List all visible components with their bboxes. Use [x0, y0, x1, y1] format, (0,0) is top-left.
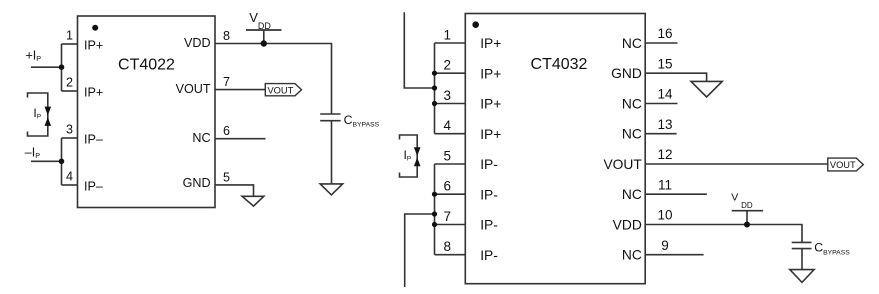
ground symbol pin15 U2 — [691, 81, 722, 97]
svg-text:IP-: IP- — [480, 248, 498, 263]
ground symbol below C_BYPASS right — [790, 270, 814, 283]
IC U2 CT4032 body — [465, 14, 645, 284]
wire pin7 VOUT — [215, 89, 265, 91]
svg-text:CT4022: CT4022 — [118, 57, 175, 74]
junction VDD U2 — [744, 222, 750, 228]
VOUT flag right — [828, 158, 864, 171]
wire pin9 NC stub — [645, 254, 703, 256]
wire cap to ground left — [331, 121, 333, 184]
svg-text:1: 1 — [444, 27, 452, 42]
IC U1 CT4022 body — [78, 16, 216, 208]
wire bus pins 3-4 U1 — [61, 138, 63, 185]
svg-text:NC: NC — [622, 248, 642, 263]
wire pin15 GND — [645, 73, 706, 81]
svg-text:IP–: IP– — [84, 133, 103, 147]
wire pin11 NC stub — [645, 193, 707, 195]
VDD stub U1 — [263, 30, 265, 44]
arrow down IP symbol left — [45, 107, 52, 116]
junction pin6 bus U2 — [432, 192, 437, 197]
wire pin3 stub U2 — [435, 103, 466, 105]
capacitor C_BYPASS right plates — [792, 242, 812, 248]
svg-text:12: 12 — [657, 147, 672, 162]
wire pin8 stub U2 — [435, 254, 466, 256]
VDD stub U2 — [746, 211, 748, 225]
svg-text:15: 15 — [657, 56, 672, 71]
wire pin16 NC stub — [645, 42, 677, 44]
svg-text:2: 2 — [66, 75, 73, 89]
wire pin14 NC stub — [645, 103, 677, 105]
junction +IP node — [59, 64, 65, 70]
pin1 marker dot U2 — [472, 21, 479, 28]
svg-text:7: 7 — [223, 75, 230, 89]
junction input-top bus U2 — [432, 85, 437, 90]
svg-text:9: 9 — [661, 238, 669, 253]
current source symbol IP right — [400, 135, 418, 177]
arrow up IP symbol right — [414, 158, 421, 167]
wire pin2 stub U1 — [62, 90, 78, 92]
arrow up IP symbol left — [45, 117, 52, 126]
svg-text:14: 14 — [657, 87, 673, 102]
svg-text:IP+: IP+ — [480, 36, 501, 51]
wire pin8 VDD to bypass cap — [215, 44, 332, 115]
arrow down IP symbol right — [414, 147, 421, 156]
wire -IP input — [31, 160, 62, 162]
junction -IP node — [59, 159, 65, 165]
wire bus pins 1-4 U2 — [434, 43, 436, 134]
svg-text:VOUT: VOUT — [267, 86, 293, 96]
wire pin3 stub U1 — [62, 137, 78, 139]
svg-text:8: 8 — [223, 29, 230, 43]
wire bus pins 5-8 U2 — [434, 164, 436, 255]
VDD rail bar U2 — [732, 210, 763, 212]
svg-text:1: 1 — [66, 28, 73, 42]
svg-text:IP-: IP- — [480, 157, 498, 172]
current source symbol IP left — [28, 93, 48, 136]
wire input bottom U2 — [405, 214, 435, 287]
wire pin5 stub U2 — [435, 163, 466, 165]
VOUT flag left — [265, 84, 301, 96]
wire pin6 stub U2 — [435, 193, 466, 195]
svg-text:NC: NC — [622, 97, 642, 112]
wire pin1 stub U1 — [62, 43, 78, 45]
svg-text:NC: NC — [622, 36, 642, 51]
svg-text:IP-: IP- — [480, 218, 498, 233]
wire pin2 stub U2 — [435, 72, 466, 74]
svg-text:IP+: IP+ — [480, 127, 501, 142]
ground symbol pin5 U1 — [242, 196, 264, 206]
svg-text:CT4032: CT4032 — [531, 56, 588, 73]
svg-text:2: 2 — [444, 58, 452, 73]
VDD rail bar U1 — [246, 29, 282, 31]
svg-text:VOUT: VOUT — [603, 157, 642, 172]
wire bus pins 1-2 U1 — [61, 44, 63, 91]
svg-text:5: 5 — [444, 148, 452, 163]
svg-text:IP+: IP+ — [84, 39, 103, 53]
junction pin3 bus U2 — [432, 101, 437, 106]
svg-text:GND: GND — [611, 66, 642, 81]
wire pin7 stub U2 — [435, 224, 466, 226]
wire pin1 stub U2 — [435, 42, 466, 44]
svg-text:IP+: IP+ — [84, 86, 103, 100]
svg-text:10: 10 — [657, 208, 672, 223]
svg-text:3: 3 — [444, 88, 452, 103]
svg-text:NC: NC — [622, 127, 642, 142]
svg-text:VDD: VDD — [613, 218, 642, 233]
wire pin6 NC stub — [215, 138, 266, 140]
wire cap to ground right — [801, 249, 803, 270]
svg-text:6: 6 — [444, 179, 452, 194]
wire pin4 stub U2 — [435, 133, 466, 135]
svg-text:8: 8 — [444, 239, 452, 254]
svg-text:IP+: IP+ — [480, 66, 501, 81]
svg-text:IP–: IP– — [84, 180, 103, 194]
wire pin5 GND — [215, 185, 254, 196]
svg-text:IP-: IP- — [480, 187, 498, 202]
pin1 marker dot U1 — [92, 25, 98, 31]
wire pin10 VDD to bypass cap — [645, 225, 802, 243]
junction VDD U1 — [261, 40, 267, 46]
svg-text:4: 4 — [66, 169, 73, 183]
svg-text:5: 5 — [223, 170, 230, 184]
svg-text:11: 11 — [658, 177, 672, 192]
svg-text:NC: NC — [622, 187, 642, 202]
svg-text:6: 6 — [223, 124, 230, 138]
svg-text:VOUT: VOUT — [176, 82, 211, 96]
svg-text:16: 16 — [657, 26, 672, 41]
svg-text:GND: GND — [183, 176, 211, 190]
svg-text:4: 4 — [444, 118, 452, 133]
wire pin13 NC stub — [645, 133, 677, 135]
junction pin2 bus U2 — [432, 71, 437, 76]
ground symbol below C_BYPASS left — [320, 184, 342, 195]
junction pin7 bus U2 — [432, 222, 437, 227]
svg-text:VDD: VDD — [184, 36, 211, 50]
svg-text:13: 13 — [657, 117, 672, 132]
wire pin12 VOUT — [645, 163, 828, 165]
wire pin4 stub U1 — [62, 184, 78, 186]
svg-text:NC: NC — [192, 131, 210, 145]
capacitor C_BYPASS left plates — [320, 114, 340, 121]
wire +IP input — [31, 66, 62, 68]
svg-text:3: 3 — [66, 122, 73, 136]
svg-text:VOUT: VOUT — [830, 160, 856, 170]
wire input top U2 — [404, 12, 434, 88]
svg-text:IP+: IP+ — [480, 97, 501, 112]
svg-text:7: 7 — [444, 209, 452, 224]
junction input-bottom bus U2 — [432, 211, 437, 216]
